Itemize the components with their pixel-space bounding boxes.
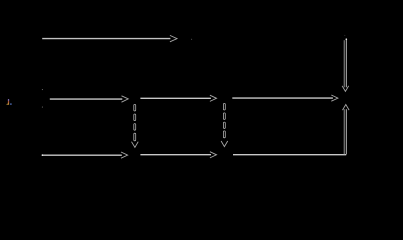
arrowhead top branch bbox=[170, 35, 177, 41]
arrowhead middle row junction 1 bbox=[122, 96, 129, 102]
dashed arrow junction 2 (double-line dashes) bbox=[223, 103, 225, 137]
wire right riser (double line, up from bottom row) bbox=[343, 109, 345, 155]
arrowhead middle row junction 2 bbox=[210, 95, 217, 101]
wire right dropper (double line, from top) bbox=[343, 40, 345, 87]
dashed arrow junction 1 (double-line dashes) bbox=[134, 104, 136, 140]
arrowhead down into output node bbox=[342, 86, 349, 92]
wire bottom row segment 2 bbox=[140, 154, 211, 156]
wire middle row segment 1 bbox=[50, 98, 123, 100]
arrowhead bottom row junction 2 bbox=[210, 152, 217, 158]
wire middle row segment 3 bbox=[232, 97, 333, 99]
arrowhead up into output node bbox=[343, 105, 350, 111]
wire middle row segment 2 bbox=[140, 97, 211, 99]
wire top branch bbox=[42, 38, 170, 40]
wire bottom row segment 3 bbox=[233, 154, 346, 156]
speck right of top arrow bbox=[191, 39, 192, 40]
label x (input) bbox=[7, 99, 12, 105]
arrowhead bottom row junction 1 bbox=[121, 152, 128, 158]
arrowhead down junction 1 bbox=[132, 142, 139, 148]
arrowhead into output node bbox=[331, 95, 338, 101]
arrowhead down junction 2 bbox=[221, 141, 228, 147]
speck above right vertical line bbox=[344, 35, 345, 36]
wire bottom row segment 1 bbox=[42, 154, 122, 156]
node x (faint circle remnants) bbox=[42, 89, 43, 90]
